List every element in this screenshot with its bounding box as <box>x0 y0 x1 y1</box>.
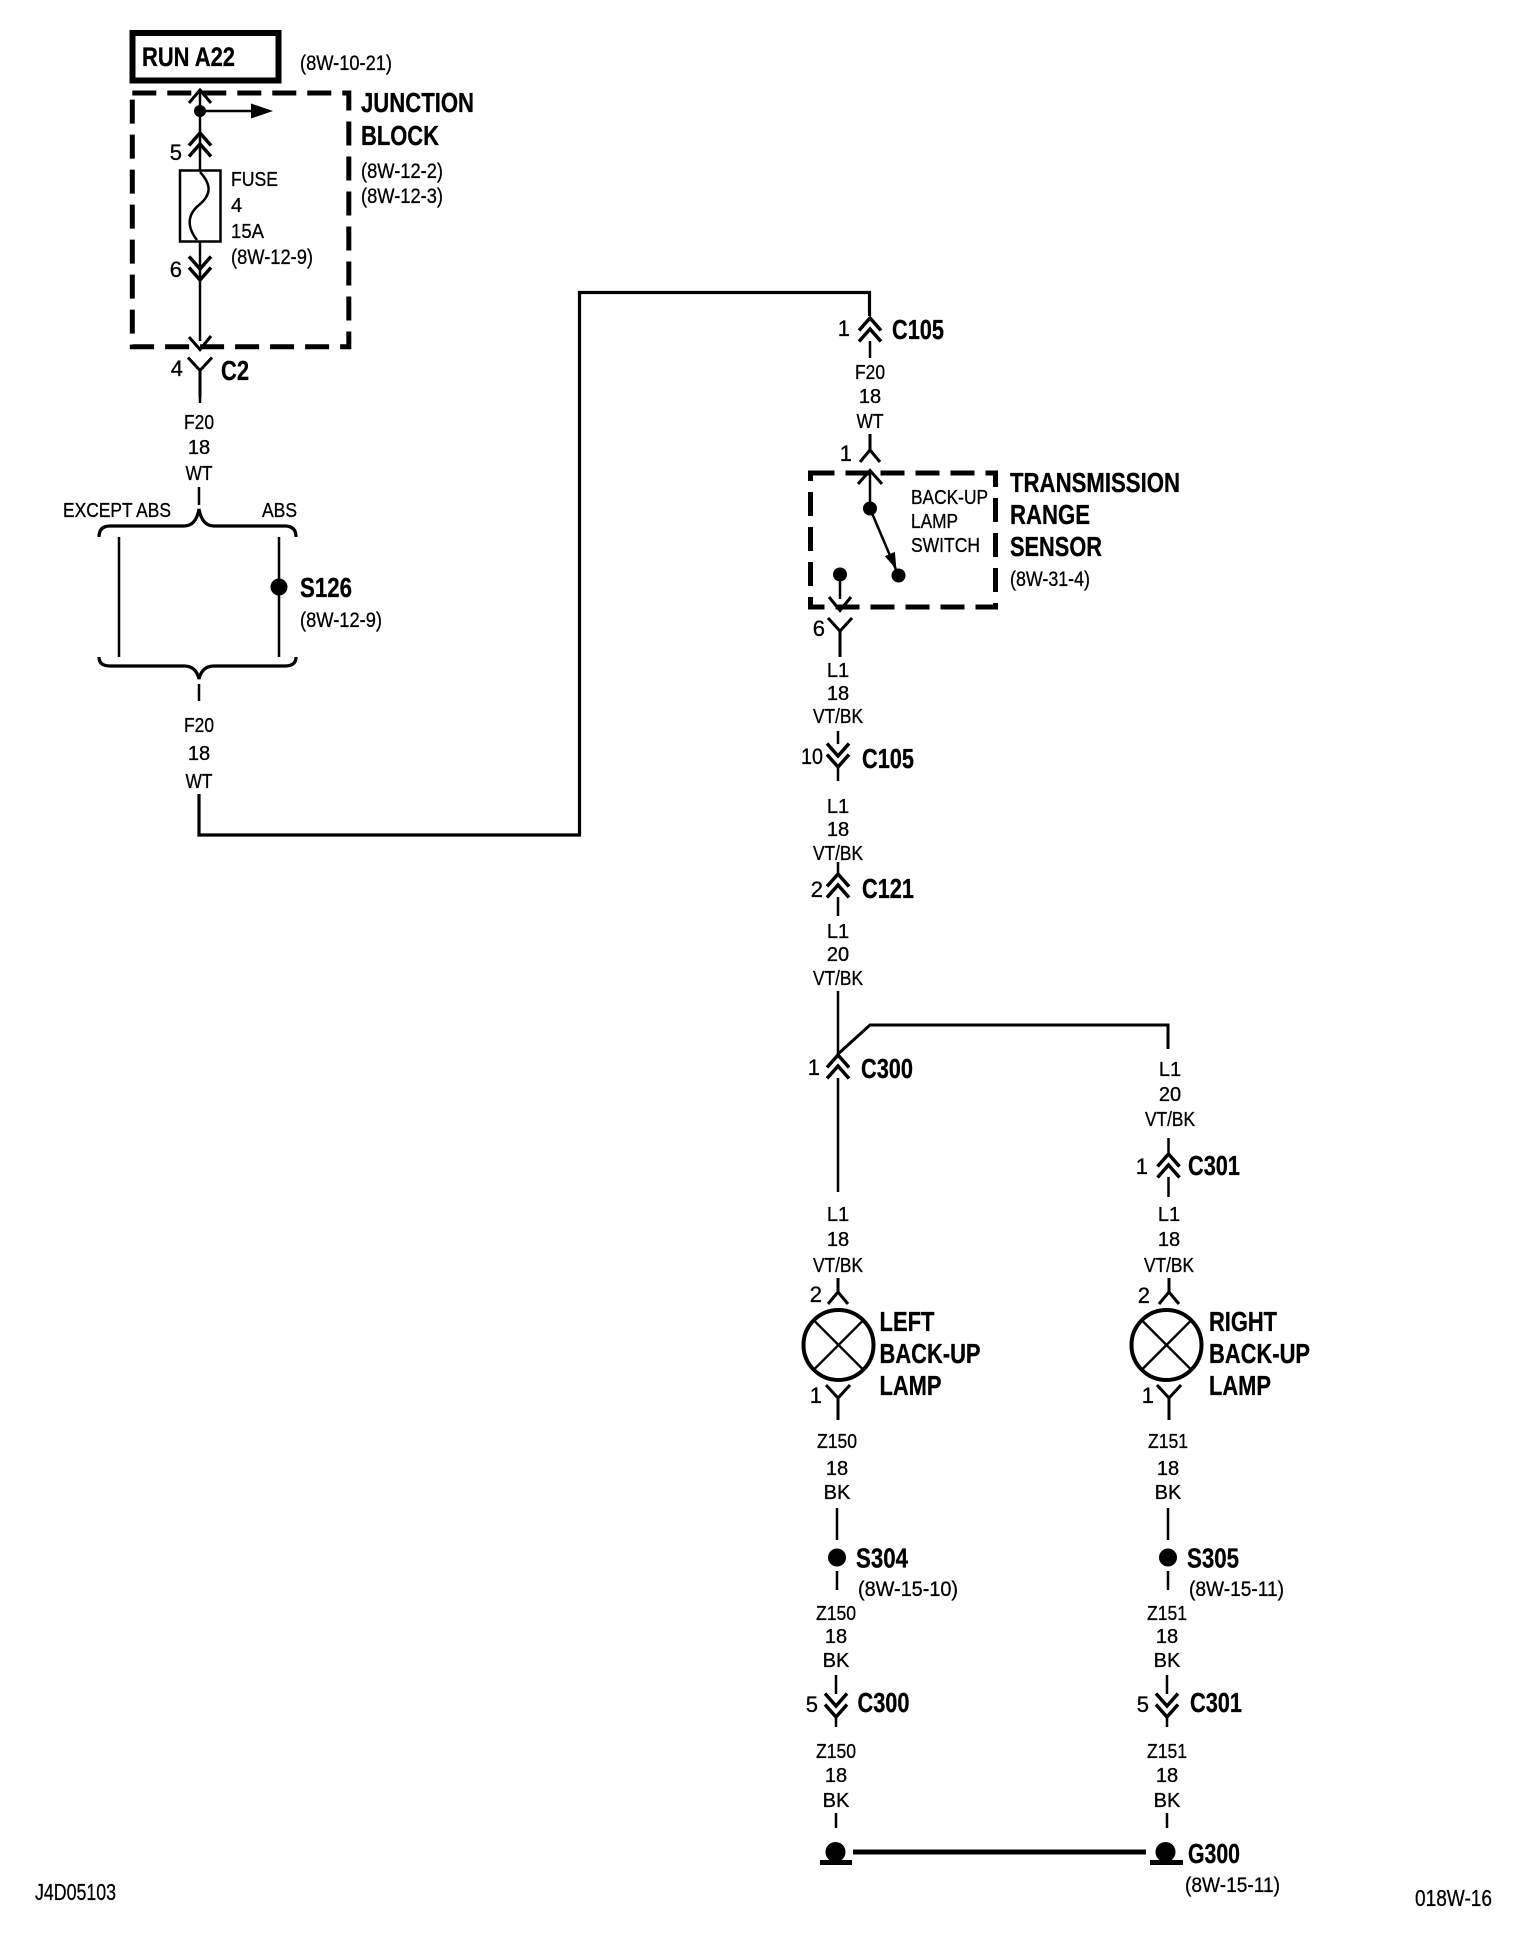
svg-text:(8W-15-11): (8W-15-11) <box>1189 1578 1284 1601</box>
splice S126 <box>271 579 288 596</box>
brace split top <box>99 509 296 537</box>
svg-text:ABS: ABS <box>262 500 297 522</box>
wire feed to C105 <box>199 293 870 836</box>
switch contact dot <box>892 569 906 583</box>
svg-text:F20: F20 <box>184 715 214 737</box>
splice S304 <box>828 1549 846 1567</box>
svg-text:Z151: Z151 <box>1148 1431 1188 1453</box>
svg-text:18: 18 <box>1157 1458 1179 1480</box>
wire below S305 <box>1167 1571 1170 1590</box>
svg-text:G300: G300 <box>1188 1838 1240 1869</box>
svg-text:018W-16: 018W-16 <box>1415 1885 1492 1911</box>
svg-text:F20: F20 <box>184 412 214 434</box>
svg-text:(8W-12-9): (8W-12-9) <box>231 246 313 269</box>
svg-text:L1: L1 <box>827 921 849 943</box>
svg-text:18: 18 <box>825 1626 847 1648</box>
svg-text:TRANSMISSION: TRANSMISSION <box>1010 467 1180 498</box>
wire ABS branch <box>278 537 281 657</box>
svg-text:L1: L1 <box>827 796 849 818</box>
svg-text:1: 1 <box>1136 1154 1148 1179</box>
svg-text:Z150: Z150 <box>816 1741 856 1763</box>
svg-text:F20: F20 <box>855 362 885 384</box>
svg-text:C300: C300 <box>858 1687 910 1718</box>
svg-text:20: 20 <box>827 944 849 966</box>
svg-text:SWITCH: SWITCH <box>911 535 980 557</box>
svg-text:6: 6 <box>170 257 182 282</box>
svg-text:BK: BK <box>1154 1790 1181 1812</box>
svg-text:L1: L1 <box>827 660 849 682</box>
connector C105 pin 10 chevrons <box>827 744 849 768</box>
svg-text:2: 2 <box>811 877 823 902</box>
svg-text:18: 18 <box>1158 1229 1180 1251</box>
svg-text:10: 10 <box>801 744 823 769</box>
fuse 4 15A <box>180 171 221 242</box>
svg-text:1: 1 <box>810 1383 822 1408</box>
svg-text:1: 1 <box>808 1055 820 1080</box>
svg-text:Z151: Z151 <box>1147 1603 1187 1625</box>
svg-text:L1: L1 <box>827 1204 849 1226</box>
svg-text:(8W-10-21): (8W-10-21) <box>300 52 392 75</box>
arrow to other circuits <box>200 110 256 113</box>
svg-text:VT/BK: VT/BK <box>813 968 864 990</box>
svg-text:(8W-12-3): (8W-12-3) <box>361 185 443 208</box>
transmission range sensor enclosure <box>811 473 996 607</box>
svg-text:1: 1 <box>838 316 850 341</box>
arrow exiting junction block <box>189 336 211 350</box>
connector C301 pin 5 chevrons <box>1156 1694 1178 1718</box>
svg-text:BK: BK <box>823 1790 850 1812</box>
svg-text:LAMP: LAMP <box>1209 1370 1271 1401</box>
svg-text:C300: C300 <box>861 1053 913 1084</box>
wire into C301 pin 5 <box>1166 1675 1169 1694</box>
connector C105 pin 1 chevrons <box>859 318 881 342</box>
svg-text:C121: C121 <box>862 873 914 904</box>
wire from fuse to block exit <box>199 241 202 341</box>
svg-text:EXCEPT ABS: EXCEPT ABS <box>63 500 171 522</box>
svg-text:BACK-UP: BACK-UP <box>911 487 988 509</box>
left lamp pin 2 <box>828 1278 848 1304</box>
wire below C300 pin 1 <box>837 1078 840 1192</box>
svg-text:18: 18 <box>826 1458 848 1480</box>
svg-text:WT: WT <box>186 463 213 485</box>
wire from RUN A22 into junction block <box>189 90 211 103</box>
svg-text:5: 5 <box>1137 1692 1149 1717</box>
switch input arrow <box>858 471 882 485</box>
svg-text:BK: BK <box>823 1650 850 1672</box>
svg-text:L1: L1 <box>1159 1059 1181 1081</box>
svg-text:18: 18 <box>827 683 849 705</box>
ground interconnect wire <box>853 1850 1146 1855</box>
wire EXCEPT ABS branch <box>118 537 121 657</box>
svg-text:BACK-UP: BACK-UP <box>1209 1338 1310 1369</box>
switch pivot <box>863 502 877 516</box>
wire into C105 pin 10 <box>837 731 840 744</box>
svg-text:20: 20 <box>1159 1084 1181 1106</box>
svg-text:RUN A22: RUN A22 <box>142 42 235 72</box>
svg-text:18: 18 <box>1156 1765 1178 1787</box>
svg-text:BK: BK <box>824 1482 851 1504</box>
wire below C2 <box>199 397 202 403</box>
svg-text:LEFT: LEFT <box>880 1306 935 1337</box>
svg-text:18: 18 <box>827 819 849 841</box>
wire into left ground <box>835 1813 838 1828</box>
left back-up lamp <box>804 1310 874 1380</box>
connector C2 pin 4 <box>188 358 212 398</box>
transmission range sensor pin 1 <box>860 434 880 462</box>
svg-text:BK: BK <box>1154 1650 1181 1672</box>
svg-text:RIGHT: RIGHT <box>1209 1306 1277 1337</box>
svg-text:(8W-12-2): (8W-12-2) <box>361 160 443 183</box>
svg-text:BLOCK: BLOCK <box>361 120 439 151</box>
svg-text:BACK-UP: BACK-UP <box>880 1338 981 1369</box>
wire into ground G300 <box>1166 1813 1169 1828</box>
connector C301 pin 1 chevrons <box>1167 1138 1170 1154</box>
svg-text:BK: BK <box>1155 1482 1182 1504</box>
svg-text:VT/BK: VT/BK <box>813 706 864 728</box>
connector pin 6 chevrons <box>189 257 211 281</box>
svg-text:C105: C105 <box>892 314 944 345</box>
junction block enclosure <box>132 93 348 347</box>
svg-text:S304: S304 <box>856 1543 908 1574</box>
switch output wire with arrow <box>839 581 842 599</box>
svg-text:LAMP: LAMP <box>880 1370 942 1401</box>
svg-text:Z150: Z150 <box>816 1603 856 1625</box>
switch output dot <box>833 568 847 582</box>
svg-text:S126: S126 <box>300 572 352 603</box>
svg-text:18: 18 <box>859 386 881 408</box>
svg-text:(8W-15-10): (8W-15-10) <box>858 1578 958 1601</box>
svg-text:18: 18 <box>1156 1626 1178 1648</box>
svg-text:4: 4 <box>231 195 242 217</box>
svg-text:C2: C2 <box>221 355 249 386</box>
svg-text:VT/BK: VT/BK <box>1144 1255 1195 1277</box>
svg-text:18: 18 <box>188 437 210 459</box>
connector pin 5 chevrons <box>189 133 211 157</box>
svg-text:18: 18 <box>827 1229 849 1251</box>
transmission range sensor pin 6 <box>828 618 852 657</box>
left lamp pin 1 <box>826 1385 850 1420</box>
junction dot node <box>194 105 206 117</box>
svg-text:Z151: Z151 <box>1147 1741 1187 1763</box>
right back-up lamp <box>1132 1310 1202 1380</box>
svg-text:4: 4 <box>171 356 183 381</box>
splice S305 <box>1159 1549 1177 1567</box>
svg-text:JUNCTION: JUNCTION <box>361 87 474 118</box>
right lamp pin 1 <box>1157 1385 1181 1420</box>
svg-text:SENSOR: SENSOR <box>1010 531 1102 562</box>
connector C300 pin 5 chevrons <box>825 1694 847 1718</box>
svg-text:2: 2 <box>1138 1283 1150 1308</box>
svg-text:VT/BK: VT/BK <box>813 843 864 865</box>
svg-text:1: 1 <box>1142 1383 1154 1408</box>
wire stub below brace <box>198 684 201 701</box>
svg-text:L1: L1 <box>1158 1204 1180 1226</box>
wire into C121 pin 2 <box>837 862 840 874</box>
wire into C300 pin 5 <box>835 1675 838 1694</box>
svg-text:S305: S305 <box>1187 1543 1239 1574</box>
wire into S305 <box>1167 1508 1170 1540</box>
wire below C301 pin 1 <box>1167 1177 1170 1197</box>
svg-text:LAMP: LAMP <box>911 511 958 533</box>
ground G300 <box>1156 1842 1176 1862</box>
connector C121 pin 2 chevrons <box>827 874 849 898</box>
svg-text:(8W-31-4): (8W-31-4) <box>1010 568 1090 591</box>
wire below S304 <box>836 1571 839 1590</box>
svg-text:WT: WT <box>857 411 884 433</box>
svg-text:FUSE: FUSE <box>231 169 278 191</box>
wire into S304 <box>836 1508 839 1540</box>
svg-text:VT/BK: VT/BK <box>813 1255 864 1277</box>
wire branch junction <box>837 991 840 1054</box>
svg-text:C105: C105 <box>862 743 914 774</box>
right lamp pin 2 <box>1159 1278 1179 1304</box>
svg-text:WT: WT <box>186 771 213 793</box>
wire below C105 pin1 <box>869 341 872 358</box>
back-up lamp switch arm <box>870 509 899 576</box>
brace merge bottom <box>99 657 296 679</box>
svg-text:C301: C301 <box>1188 1150 1240 1181</box>
svg-text:(8W-12-9): (8W-12-9) <box>300 609 382 632</box>
wire stub above brace <box>198 487 201 505</box>
svg-text:2: 2 <box>810 1282 822 1307</box>
svg-text:18: 18 <box>825 1765 847 1787</box>
svg-text:RANGE: RANGE <box>1010 499 1090 530</box>
svg-text:J4D05103: J4D05103 <box>35 1879 116 1905</box>
connector C300 pin 1 chevrons <box>827 1055 849 1079</box>
svg-text:C301: C301 <box>1190 1687 1242 1718</box>
node RUN A22 feed box <box>133 33 279 81</box>
svg-text:15A: 15A <box>231 221 265 243</box>
svg-text:5: 5 <box>806 1692 818 1717</box>
ground left <box>826 1842 846 1862</box>
svg-text:5: 5 <box>170 140 182 165</box>
svg-text:VT/BK: VT/BK <box>1145 1109 1196 1131</box>
svg-text:Z150: Z150 <box>817 1431 857 1453</box>
svg-text:1: 1 <box>840 441 852 466</box>
svg-text:18: 18 <box>188 743 210 765</box>
svg-text:(8W-15-11): (8W-15-11) <box>1185 1874 1280 1897</box>
svg-text:6: 6 <box>813 616 825 641</box>
